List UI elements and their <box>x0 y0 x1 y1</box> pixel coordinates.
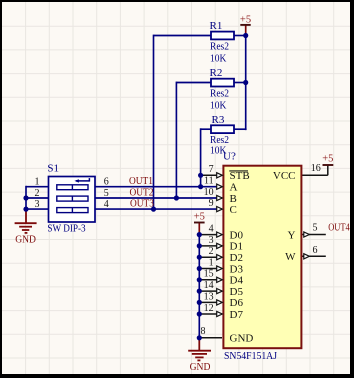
svg-text:10K: 10K <box>210 52 226 64</box>
svg-text:+5: +5 <box>194 211 205 222</box>
svg-text:5: 5 <box>313 223 318 234</box>
svg-text:C: C <box>230 204 237 216</box>
svg-text:15: 15 <box>204 269 214 280</box>
svg-text:D1: D1 <box>230 241 243 253</box>
svg-text:OUT2: OUT2 <box>130 187 154 198</box>
svg-text:13: 13 <box>204 291 214 302</box>
svg-text:8: 8 <box>201 326 206 337</box>
svg-text:W: W <box>285 251 296 263</box>
svg-text:Y: Y <box>288 229 296 241</box>
svg-text:+5: +5 <box>322 154 333 165</box>
svg-text:D6: D6 <box>230 297 244 309</box>
svg-text:GND: GND <box>190 361 211 373</box>
svg-text:3: 3 <box>209 235 214 246</box>
svg-text:STB: STB <box>230 170 250 182</box>
svg-text:10K: 10K <box>210 99 226 111</box>
svg-text:4: 4 <box>104 199 109 210</box>
svg-text:SN54F151AJ: SN54F151AJ <box>224 351 277 362</box>
svg-text:D2: D2 <box>230 252 243 264</box>
svg-text:SW DIP-3: SW DIP-3 <box>47 224 85 235</box>
svg-text:Res2: Res2 <box>210 41 229 53</box>
svg-text:4: 4 <box>209 224 214 235</box>
svg-text:GND: GND <box>15 233 36 245</box>
svg-text:2: 2 <box>209 246 214 257</box>
svg-text:OUT4: OUT4 <box>328 223 350 234</box>
svg-text:14: 14 <box>204 280 214 291</box>
svg-text:GND: GND <box>230 333 254 345</box>
svg-text:OUT1: OUT1 <box>129 176 153 187</box>
svg-text:D5: D5 <box>230 286 244 298</box>
svg-text:12: 12 <box>204 303 214 314</box>
svg-text:D3: D3 <box>230 263 244 275</box>
svg-text:5: 5 <box>104 188 109 199</box>
svg-text:Res2: Res2 <box>210 88 229 100</box>
svg-text:1: 1 <box>209 257 214 268</box>
svg-text:OUT3: OUT3 <box>130 199 154 210</box>
svg-text:1: 1 <box>35 177 40 188</box>
svg-text:R3: R3 <box>212 114 225 126</box>
svg-text:VCC: VCC <box>273 170 296 182</box>
svg-text:16: 16 <box>311 163 321 174</box>
svg-text:U?: U? <box>223 151 236 163</box>
svg-text:11: 11 <box>204 176 214 187</box>
svg-text:A: A <box>230 182 238 194</box>
svg-text:D7: D7 <box>230 309 244 321</box>
svg-text:S1: S1 <box>47 163 59 175</box>
svg-text:R1: R1 <box>210 20 223 32</box>
svg-text:3: 3 <box>35 199 40 210</box>
svg-text:D0: D0 <box>230 229 244 241</box>
svg-text:9: 9 <box>209 198 214 209</box>
svg-text:10: 10 <box>204 187 214 198</box>
svg-text:6: 6 <box>313 245 318 256</box>
svg-text:D4: D4 <box>230 275 244 287</box>
svg-text:7: 7 <box>209 164 214 175</box>
svg-text:+5: +5 <box>240 14 251 25</box>
svg-text:6: 6 <box>104 177 109 188</box>
svg-text:2: 2 <box>35 188 40 199</box>
svg-text:R2: R2 <box>210 67 223 79</box>
